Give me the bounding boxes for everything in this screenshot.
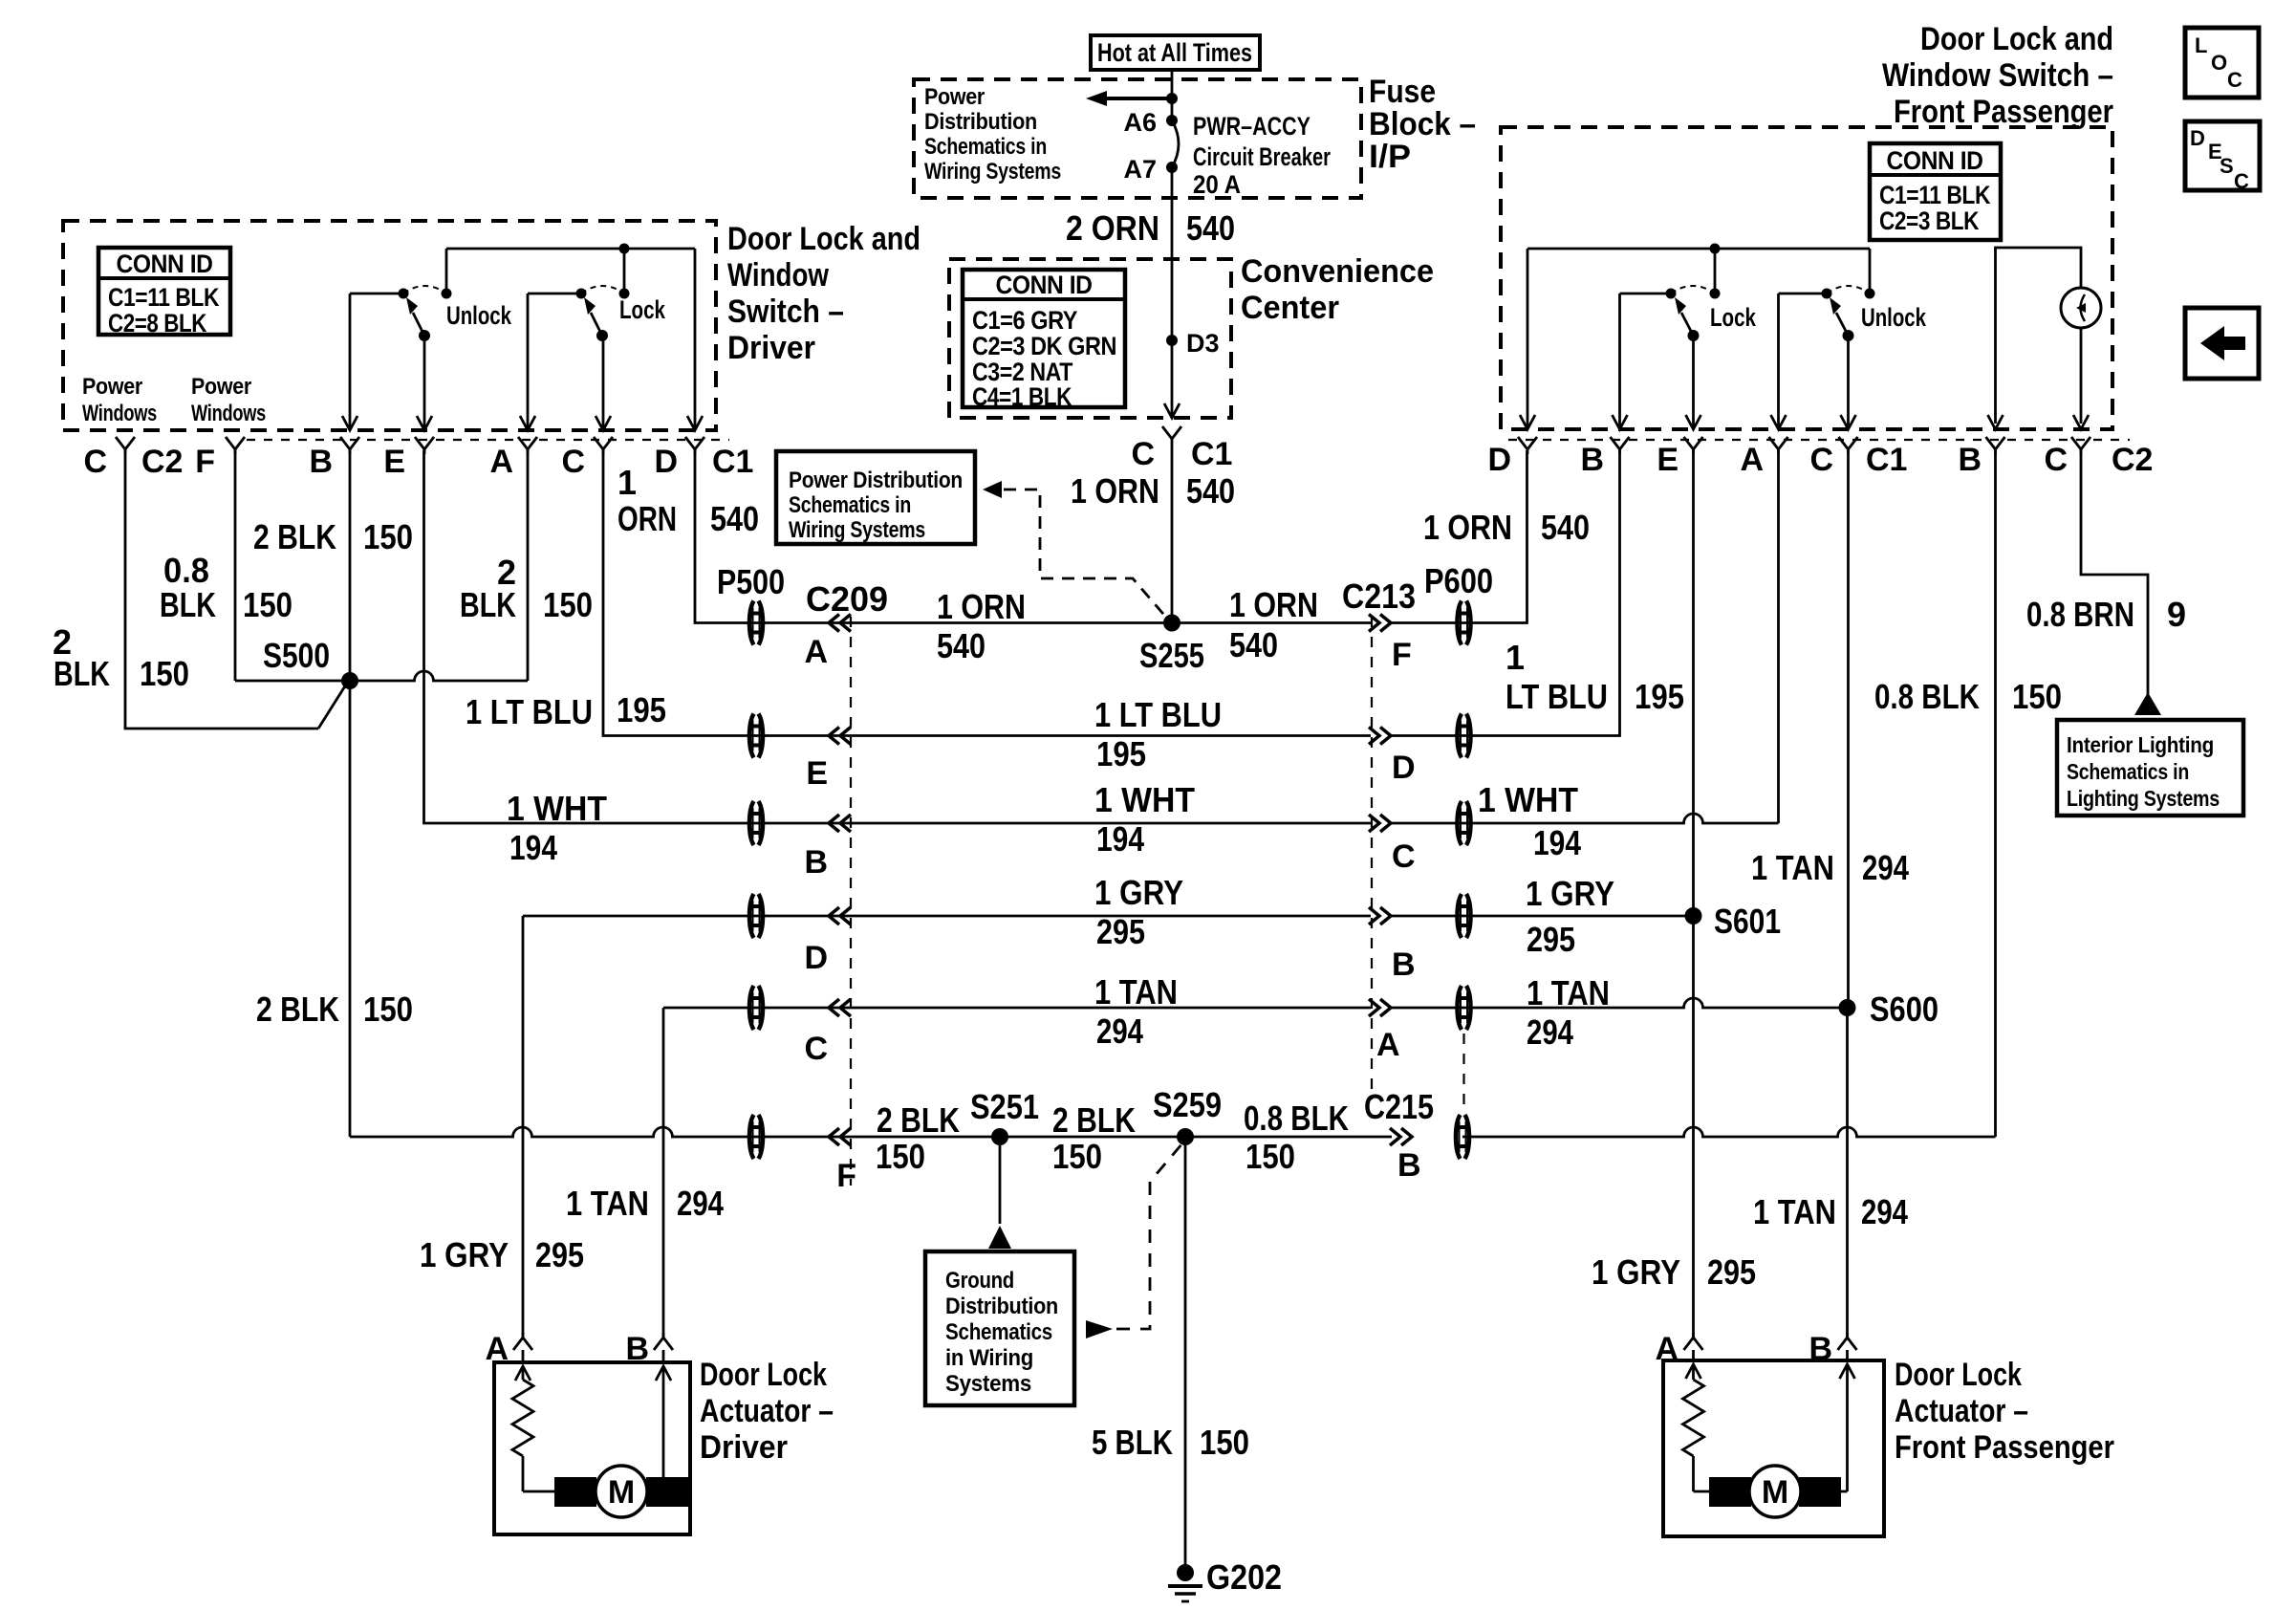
connector C209 pin E arrows [806,728,851,793]
switch common rail (passenger) [1527,244,1870,254]
svg-text:Lock: Lock [1710,303,1757,332]
connector P600 (row C) [1458,801,1471,845]
wire stubs from driver switch to pins [350,249,695,430]
svg-text:B: B [1397,1147,1421,1184]
connector C213 pin D arrows [1369,728,1416,787]
svg-text:1 WHT: 1 WHT [1478,780,1578,819]
svg-text:540: 540 [1229,625,1278,664]
svg-text:Door Lock: Door Lock [1895,1357,2022,1393]
svg-text:C4=1 BLK: C4=1 BLK [972,382,1072,411]
svg-text:D: D [654,444,678,480]
wire: 1 WHT 194 from C209 to C213 [840,780,1371,859]
svg-text:E: E [383,444,405,480]
connector P500 (row B) [749,801,763,845]
svg-text:150: 150 [140,654,189,693]
svg-text:Hot at All Times: Hot at All Times [1097,38,1252,67]
connector C209 pin B arrows [804,815,851,881]
pin C / connector C1 at convenience center bottom [1131,403,1232,472]
resistor (passenger actuator) [1683,1380,1704,1456]
svg-text:0.8 BLK: 0.8 BLK [1244,1099,1349,1138]
svg-text:B: B [309,444,333,480]
wire: 2 ORN 540 from breaker A7 to convenience center [1066,167,1235,259]
svg-text:Fuse: Fuse [1369,74,1436,110]
svg-text:294: 294 [1861,1192,1908,1231]
wire: 1 ORN 540 from driver pin D to C209 [617,450,839,623]
driver connector face dashed line [247,439,729,441]
wire: 1 GRY 295 from row D down to driver actuator pin A [420,916,584,1337]
wire: 1 TAN 294 from P600 to splice S600 (hops wire E) [1391,973,1848,1052]
svg-text:Unlock: Unlock [1861,303,1927,332]
svg-text:1 ORN: 1 ORN [1071,471,1159,511]
DESC reference box [2185,121,2260,193]
svg-text:F: F [836,1158,856,1194]
splice S255 [1139,615,1204,676]
svg-text:294: 294 [1096,1012,1143,1051]
svg-text:Driver: Driver [700,1429,788,1466]
svg-text:E: E [1657,442,1679,478]
svg-text:C2: C2 [141,444,183,480]
svg-text:9: 9 [2167,595,2186,634]
svg-text:1 ORN: 1 ORN [1423,508,1512,547]
svg-text:150: 150 [363,990,413,1029]
svg-text:1 WHT: 1 WHT [1094,780,1195,819]
svg-text:D: D [804,940,828,976]
svg-text:295: 295 [1527,920,1575,959]
svg-text:1: 1 [1505,638,1525,677]
svg-text:Window: Window [727,257,829,294]
svg-text:S259: S259 [1153,1085,1222,1124]
wire: 2 BLK 150 ground bus from driver side to C209 (hops GRY and TAN wires) [350,1127,839,1137]
svg-text:Wiring Systems: Wiring Systems [789,517,925,543]
svg-text:Door Lock and: Door Lock and [727,221,921,257]
actuator passenger internal pin arrows [1686,1364,1855,1491]
svg-text:1 TAN: 1 TAN [1753,1192,1836,1231]
svg-text:C: C [1131,436,1155,472]
svg-text:1: 1 [617,463,637,502]
svg-text:194: 194 [1533,823,1581,862]
svg-text:0.8: 0.8 [163,551,209,590]
svg-text:Actuator –: Actuator – [700,1393,834,1429]
wire: 2 BLK 150 driver pin B ground leg [253,450,413,681]
svg-text:2 BLK: 2 BLK [1052,1100,1136,1140]
indicator lamp (passenger switch) [2061,288,2101,424]
svg-text:1 ORN: 1 ORN [937,587,1026,626]
svg-text:M: M [1762,1474,1788,1511]
svg-text:Switch –: Switch – [727,294,844,330]
CONN ID table (convenience center) [963,270,1125,411]
title "Door Lock and Window Switch - Front Passenger" [1882,21,2113,130]
wire: 1 TAN 294 from row C down to driver actuator pin B [566,1008,724,1337]
wire: 0.8 BRN 9 from passenger pin C2 to interior lighting [2026,450,2186,715]
svg-text:C1: C1 [712,444,753,480]
svg-text:E: E [806,755,828,792]
svg-text:S251: S251 [970,1087,1039,1126]
svg-text:Front Passenger: Front Passenger [1894,94,2113,130]
svg-text:O: O [2211,51,2227,75]
svg-text:1 GRY: 1 GRY [420,1235,509,1274]
wire: 1 GRY 295 from C209 to C213 [840,873,1371,951]
svg-text:Convenience: Convenience [1241,253,1434,290]
svg-text:C1: C1 [1866,442,1907,478]
driver switch connector pins (male arrows) [342,416,703,430]
door lock actuator - front passenger box [1663,1360,1884,1536]
svg-text:1 WHT: 1 WHT [507,789,607,828]
actuator driver internal pin arrows [515,1366,671,1491]
connector C209 pin A arrows [804,615,851,671]
wire: 1 GRY 295 from P600 to splice S601 [1391,874,1694,959]
svg-text:C1=11 BLK: C1=11 BLK [1879,181,1991,209]
connector C213 pin C arrows [1369,815,1416,875]
svg-text:1 GRY: 1 GRY [1592,1252,1680,1292]
wire: 5 BLK 150 from S259 to ground G202 [1092,1137,1249,1565]
svg-text:Schematics: Schematics [945,1319,1052,1345]
svg-text:195: 195 [617,690,666,729]
svg-text:B: B [1958,442,1982,478]
svg-text:295: 295 [1096,912,1145,951]
connector P600 (row A) [1458,986,1471,1030]
svg-text:Power Distribution: Power Distribution [789,468,963,493]
connector P500 (row C) [749,986,763,1030]
svg-text:C: C [2234,169,2249,193]
svg-text:C209: C209 [806,579,888,619]
LOC reference box [2185,28,2259,98]
svg-text:Schematics in: Schematics in [924,134,1047,160]
svg-text:294: 294 [1862,848,1909,887]
passenger connector pin letters D B E A C C1 B C C2 [1487,442,2153,478]
svg-text:Power: Power [191,374,251,400]
driver connector female terminals [116,437,704,454]
svg-text:C2=3 DK GRN: C2=3 DK GRN [972,332,1116,360]
connector P600 (row D) [1458,714,1471,758]
connector C209 pin F arrows [829,1128,856,1194]
svg-text:2: 2 [497,553,516,592]
svg-text:CONN ID: CONN ID [996,271,1093,299]
lock switch (passenger) [1620,249,1757,341]
svg-text:1 TAN: 1 TAN [1094,972,1178,1012]
circuit breaker PWR-ACCY 20 A (pins A6/A7) [1123,108,1331,199]
svg-text:L: L [2195,33,2207,57]
svg-text:5 BLK: 5 BLK [1092,1423,1173,1462]
svg-text:294: 294 [1527,1012,1573,1052]
splice S500 [341,672,358,689]
svg-text:M: M [608,1474,635,1511]
svg-text:1 LT BLU: 1 LT BLU [1094,695,1222,734]
svg-text:C: C [804,1031,828,1067]
title "Fuse Block - I/P" [1369,74,1476,175]
svg-text:0.8 BLK: 0.8 BLK [1874,677,1980,716]
svg-text:S600: S600 [1870,990,1939,1029]
svg-text:ORN: ORN [617,499,677,538]
svg-text:C: C [83,444,107,480]
svg-text:Schematics in: Schematics in [789,492,911,518]
door lock actuator passenger connector (pins A, B) [1655,1331,1856,1367]
wire: 1 WHT 194 from P600 to passenger pin A (hops wire E) [1391,450,1779,862]
convenience center dashed box [949,259,1231,418]
wire: 1 TAN 294 from passenger pin C down to S600 and actuator pin B [1751,450,1909,1337]
CONN ID table (driver switch) [98,248,230,337]
svg-text:1 GRY: 1 GRY [1094,873,1183,912]
wire: 0.8 BLK 150 from S259 to C215 [1185,1099,1392,1176]
title "Door Lock and Window Switch - Driver" [727,221,921,366]
note box "Power Distribution Schematics in Wiring Systems" (left) [776,451,975,544]
svg-text:in Wiring: in Wiring [945,1345,1033,1371]
svg-text:150: 150 [543,585,593,624]
passenger switch connector pins (male arrows) [1520,415,2089,429]
svg-text:C215: C215 [1364,1087,1434,1126]
svg-text:Circuit Breaker: Circuit Breaker [1193,142,1331,171]
svg-text:Door Lock and: Door Lock and [1920,21,2113,57]
svg-text:S: S [2220,154,2234,178]
svg-text:Lock: Lock [619,295,666,324]
arrow: feed to power distribution (points left) [1086,91,1178,106]
svg-text:Wiring Systems: Wiring Systems [924,159,1061,185]
svg-text:A7: A7 [1123,155,1157,184]
svg-text:194: 194 [1096,819,1144,859]
interior lamp circuit wire (pin B to lamp) [1996,248,2082,424]
dashed pointer from S251 to ground distribution note box [988,1145,1011,1249]
wire: 2 BLK 150 driver pin A ground leg [460,450,593,681]
svg-text:Actuator –: Actuator – [1895,1393,2028,1429]
door lock and window switch - driver dashed box [63,221,716,430]
svg-text:BLK: BLK [160,585,216,624]
svg-text:Ground: Ground [945,1268,1014,1294]
svg-text:1 LT BLU: 1 LT BLU [466,692,593,731]
svg-text:CONN ID: CONN ID [117,250,213,278]
connector C215 dashed split line (links P600 stack to C215) [1462,1033,1464,1113]
splice S601 [1685,902,1782,941]
wire: 0.8 BLK 150 driver pin F ground leg [160,450,292,681]
wire: 2 BLK 150 driver pin C (C2) ground leg [53,450,346,729]
svg-text:B: B [1580,442,1604,478]
svg-text:C: C [2227,68,2242,92]
svg-text:D: D [1392,750,1416,786]
passenger connector female terminals [1518,437,2090,454]
door lock actuator - driver box [494,1362,690,1534]
splice S600 [1839,990,1939,1029]
wire: 1 LT BLU 195 from C209 to C213 [840,695,1371,773]
dashed pointer from note box to splice S255 [983,481,1168,620]
svg-text:1 GRY: 1 GRY [1526,874,1614,913]
svg-text:I/P: I/P [1369,139,1411,175]
label box "Hot at All Times" [1091,35,1260,70]
connector C213 dashed split line [1371,617,1373,1099]
svg-text:A6: A6 [1123,108,1157,137]
passenger connector face dashed line [1508,439,2130,441]
svg-text:BLK: BLK [54,654,110,693]
svg-text:540: 540 [937,626,986,665]
svg-text:G202: G202 [1206,1557,1282,1597]
svg-text:Driver: Driver [727,330,815,366]
connector C213 pin F arrows [1369,615,1412,674]
svg-text:C: C [1809,442,1833,478]
svg-text:C2=3 BLK: C2=3 BLK [1879,207,1980,235]
svg-text:195: 195 [1096,734,1146,773]
resistor (driver actuator) [512,1380,533,1456]
note "Power Distribution Schematics in Wiring Systems" (fuse block) [924,84,1061,185]
svg-text:540: 540 [1186,471,1235,511]
svg-text:C2=8 BLK: C2=8 BLK [108,309,207,337]
svg-text:PWR–ACCY: PWR–ACCY [1193,112,1310,141]
dashed pointer from ground note box to S259 [1086,1143,1182,1338]
svg-text:Door Lock: Door Lock [700,1357,827,1393]
splice S251 [970,1087,1039,1145]
svg-text:294: 294 [677,1184,724,1223]
svg-text:150: 150 [243,585,292,624]
svg-text:B: B [804,844,828,881]
svg-text:Windows: Windows [191,401,266,426]
svg-text:LT BLU: LT BLU [1505,677,1608,716]
unlock switch (driver) [350,249,512,341]
svg-text:Block –: Block – [1369,106,1476,142]
svg-text:2 BLK: 2 BLK [256,990,339,1029]
label "Power Windows" (pin C) [82,374,157,426]
svg-text:C: C [2044,442,2068,478]
svg-text:C: C [561,444,585,480]
svg-text:Windows: Windows [82,401,157,426]
svg-text:540: 540 [1186,208,1235,248]
svg-text:150: 150 [1245,1137,1295,1176]
svg-text:Distribution: Distribution [945,1294,1058,1319]
title "Door Lock Actuator - Driver" [700,1357,834,1466]
svg-text:540: 540 [1541,508,1590,547]
svg-text:A: A [1740,442,1764,478]
connector C209 pin D arrows [804,907,851,976]
svg-text:2 BLK: 2 BLK [253,517,336,556]
connector P500 (row F) [749,1115,763,1159]
svg-text:F: F [1392,637,1412,673]
driver connector pin letters C C2 F B E A C D C1 [83,444,753,480]
connector C213 pin B arrows [1369,907,1416,983]
svg-text:150: 150 [363,517,413,556]
svg-text:P600: P600 [1424,561,1493,600]
wire: 1 ORN 540 from convenience center to S255 [1071,444,1235,623]
wire: 1 ORN 540 from S255 to C213 [1172,585,1371,664]
wire: 1 ORN 540 from C209 to S255 [840,587,1172,665]
wire: 1 ORN 540 from P600 to passenger pin D [1391,450,1590,623]
svg-text:1 TAN: 1 TAN [1527,973,1610,1012]
svg-text:150: 150 [876,1137,925,1176]
connector C209 dashed split line [850,617,852,1186]
svg-text:D3: D3 [1186,329,1220,358]
wire: 2 BLK 150 from C209 to splice S251 [840,1100,1000,1176]
door lock actuator driver connector (pins A, B) [485,1331,673,1367]
back-arrow box [2185,308,2259,379]
svg-text:1 TAN: 1 TAN [1751,848,1834,887]
connector P500 (row D) [749,894,763,938]
svg-text:Power: Power [82,374,142,400]
svg-text:2 BLK: 2 BLK [877,1100,960,1140]
svg-text:Center: Center [1241,290,1339,326]
connector P500 (row E) [749,714,763,758]
svg-text:Unlock: Unlock [446,301,512,330]
svg-text:2 ORN: 2 ORN [1066,208,1159,248]
connector C215 pin B arrows [1364,1087,1434,1184]
connector P600 (row B) [1458,894,1471,938]
svg-text:0.8 BRN: 0.8 BRN [2026,595,2134,634]
wire: 1 GRY 295 from S601 down to passenger actuator pin A [1592,916,1756,1337]
wire stubs from passenger switch to pins [1527,249,1849,429]
svg-text:Front Passenger: Front Passenger [1895,1429,2114,1466]
motor M (passenger actuator) [1694,1456,1848,1517]
svg-text:S601: S601 [1714,902,1781,941]
motor M (driver actuator) [523,1456,688,1517]
svg-text:C: C [1392,838,1416,875]
svg-text:B: B [1392,946,1416,983]
wire: 1 LT BLU 195 from driver pin C to C209 [466,450,839,736]
wire: 1 WHT 194 from driver pin E to C209 [424,450,840,867]
CONN ID table (passenger switch) [1870,143,2001,240]
wire: battery feed from Hot at All Times into fuse block [1171,70,1174,120]
svg-text:CONN ID: CONN ID [1887,146,1983,175]
title "Convenience Center" [1241,253,1434,326]
svg-text:D: D [1487,442,1511,478]
splice S500 bus (hops wire E) [235,636,528,681]
svg-text:C1=6 GRY: C1=6 GRY [972,306,1077,335]
svg-text:Schematics in: Schematics in [2067,759,2189,784]
svg-text:Interior Lighting: Interior Lighting [2067,732,2214,757]
svg-text:195: 195 [1635,677,1684,716]
svg-text:C213: C213 [1342,577,1416,616]
wire: 1 GRY 295 from door lock actuator driver pin A, up to C209 [523,915,839,918]
svg-text:C2: C2 [2112,442,2153,478]
svg-text:A: A [1376,1027,1400,1063]
svg-text:D: D [2190,126,2205,150]
wire: 2 BLK 150 from S251 to splice S259 [1000,1100,1185,1176]
svg-text:F: F [195,444,215,480]
svg-text:150: 150 [1200,1423,1249,1462]
node D3 [1166,329,1220,358]
wire: 1 TAN 294 from C209 to C213 [840,972,1371,1051]
wire: feed through convenience center (pin D3) [1171,259,1174,418]
svg-text:S255: S255 [1139,636,1204,675]
svg-text:Power: Power [924,84,985,110]
unlock switch (passenger) [1779,249,1927,341]
svg-text:150: 150 [1052,1137,1102,1176]
svg-text:Window Switch –: Window Switch – [1882,57,2113,94]
svg-text:A: A [489,444,513,480]
svg-text:Distribution: Distribution [924,109,1037,135]
svg-text:194: 194 [509,828,557,867]
door lock and window switch - front passenger dashed box [1501,127,2112,429]
lock switch (driver) [528,249,666,341]
label "Power Windows" (pin F) [191,374,266,426]
wire: 2 BLK 150 from S500 down to ground bus [256,681,413,1137]
wire: 0.8 BLK 150 ground bus to passenger pin B (hops GRY and TAN wires) [1462,450,2062,1137]
svg-text:Lighting Systems: Lighting Systems [2067,786,2220,811]
wire: passenger pin E down to splice S601 [1692,450,1695,916]
title "Door Lock Actuator - Front Passenger" [1895,1357,2114,1466]
connector P500 (row A) [717,562,888,645]
svg-text:1 ORN: 1 ORN [1229,585,1318,624]
svg-text:295: 295 [1707,1252,1756,1292]
svg-text:295: 295 [535,1235,584,1274]
wire: 1 TAN 294 from door lock actuator driver pin B, up to C209 [663,1007,839,1010]
svg-text:C1: C1 [1191,436,1232,472]
svg-text:P500: P500 [717,562,785,601]
connector C213 pin A arrows [1369,999,1400,1063]
svg-text:Systems: Systems [945,1371,1031,1397]
svg-text:20 A: 20 A [1193,170,1241,199]
fuse block I/P dashed box [914,79,1361,198]
switch common rail (driver) [446,244,695,254]
note box "Interior Lighting Schematics in Lighting Systems" [2057,720,2243,816]
svg-text:A: A [804,634,828,670]
svg-text:S500: S500 [263,636,330,675]
ground G202 [1168,1557,1282,1601]
connector P600 (row F) [1342,561,1493,645]
svg-text:150: 150 [2012,677,2062,716]
connector C209 pin C arrows [804,999,851,1067]
